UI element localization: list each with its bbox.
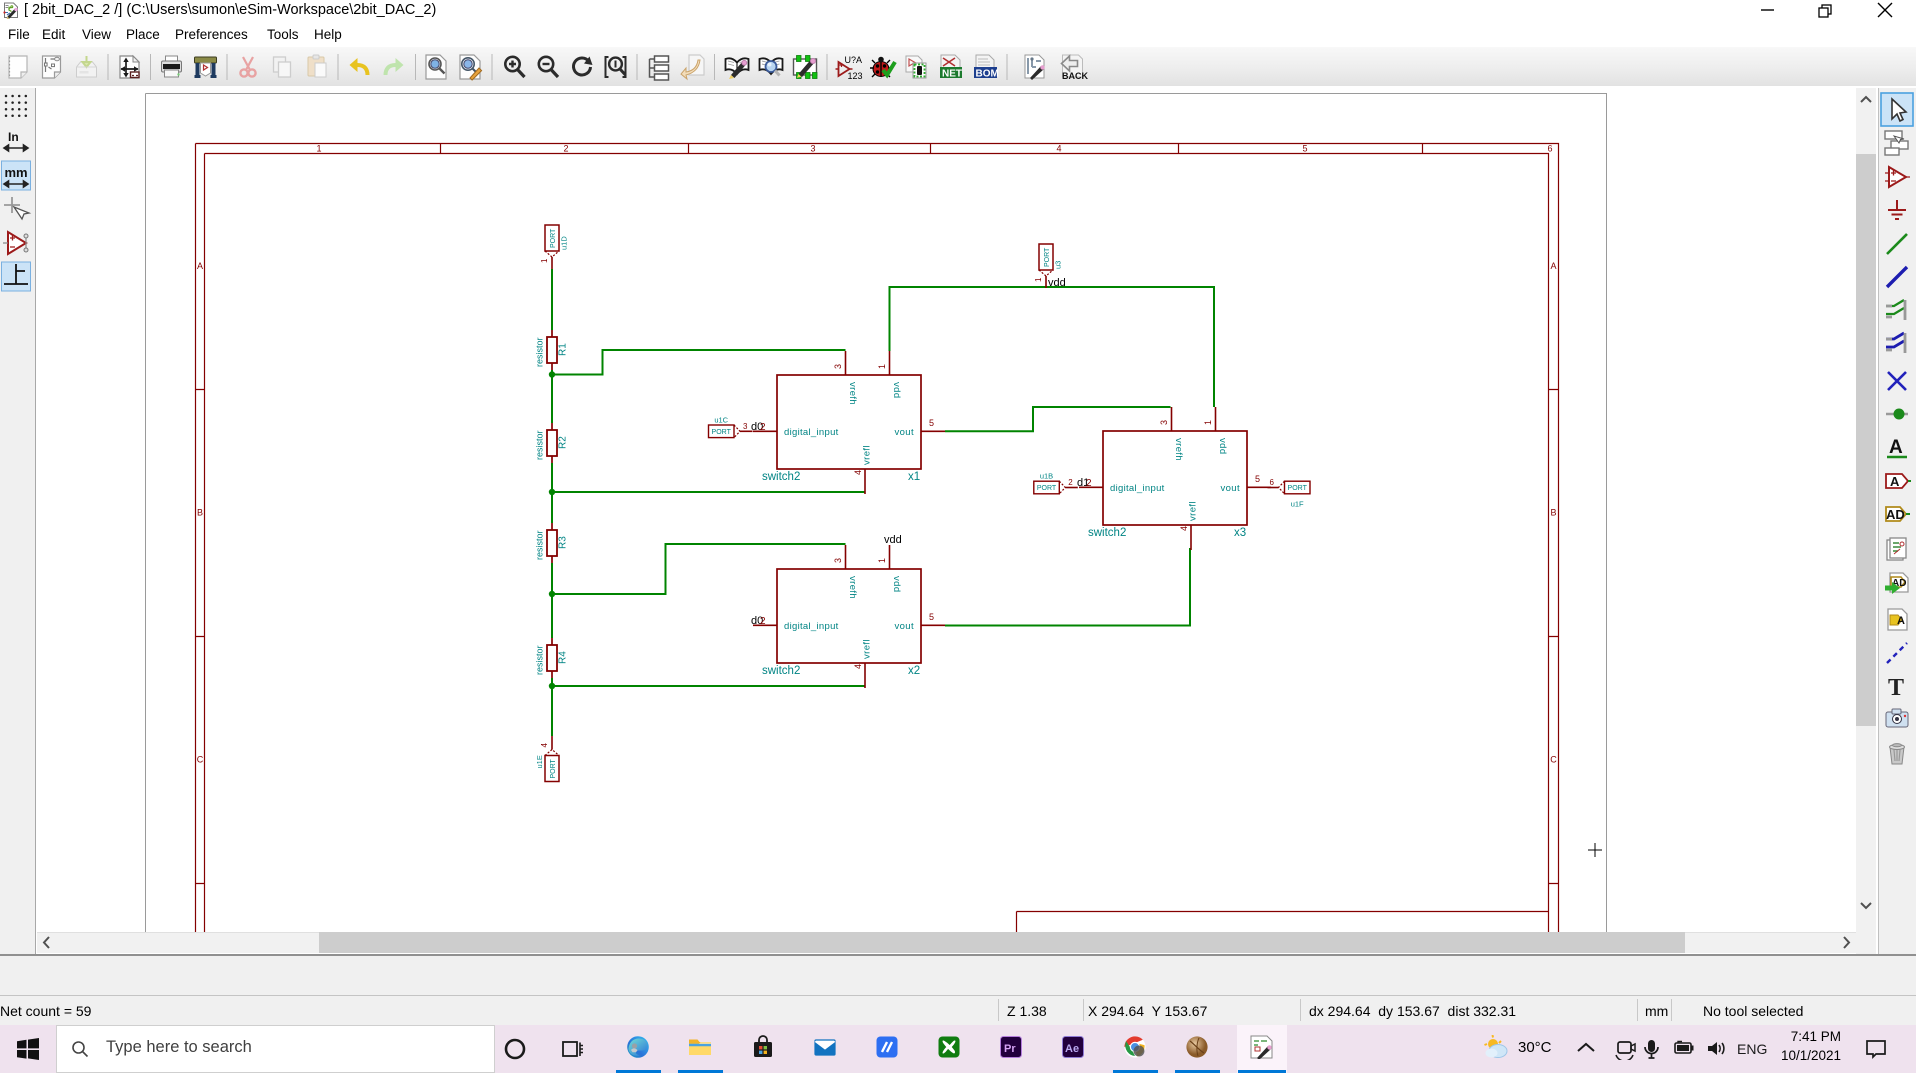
svg-text:C: C xyxy=(1550,755,1557,765)
svg-text:A: A xyxy=(1890,474,1900,489)
svg-text:PORT: PORT xyxy=(1288,485,1308,492)
svg-text:BOM: BOM xyxy=(976,69,999,80)
svg-text:u1E: u1E xyxy=(535,755,544,768)
svg-text:PORT: PORT xyxy=(550,758,557,778)
svg-text:R3: R3 xyxy=(558,536,569,549)
svg-text:BACK: BACK xyxy=(1062,71,1088,81)
svg-text:3: 3 xyxy=(833,558,843,563)
svg-text:vrefl: vrefl xyxy=(1188,501,1199,521)
svg-text:5: 5 xyxy=(1255,474,1260,484)
svg-text:switch2: switch2 xyxy=(1088,527,1126,539)
svg-text:resistor: resistor xyxy=(535,530,545,560)
svg-text:2: 2 xyxy=(1068,478,1073,487)
svg-text:4: 4 xyxy=(1179,526,1189,531)
svg-text:NET: NET xyxy=(942,69,962,80)
svg-text:vdd: vdd xyxy=(1048,277,1066,289)
svg-text:123: 123 xyxy=(848,71,863,81)
svg-text:digital_input: digital_input xyxy=(784,621,839,632)
svg-text:Pr: Pr xyxy=(1004,1043,1016,1055)
svg-text:R1: R1 xyxy=(558,343,569,356)
svg-text:switch2: switch2 xyxy=(762,665,800,677)
svg-text:A: A xyxy=(1889,437,1903,458)
svg-text:1: 1 xyxy=(877,558,887,563)
svg-text:1: 1 xyxy=(540,258,549,263)
svg-text:In: In xyxy=(8,130,19,144)
svg-text:2: 2 xyxy=(1086,478,1092,489)
svg-text:4: 4 xyxy=(540,743,549,748)
svg-text:3: 3 xyxy=(743,422,748,431)
svg-text:vdd: vdd xyxy=(884,534,902,546)
svg-text:U?A: U?A xyxy=(845,55,863,65)
svg-text:4: 4 xyxy=(853,470,863,475)
svg-text:u3: u3 xyxy=(1054,261,1063,269)
svg-text:u1F: u1F xyxy=(1291,500,1304,509)
svg-text:5: 5 xyxy=(1302,144,1307,154)
svg-text:vdd: vdd xyxy=(891,576,902,593)
svg-text:C: C xyxy=(197,755,204,765)
svg-text:4: 4 xyxy=(853,664,863,669)
svg-text:resistor: resistor xyxy=(535,337,545,367)
svg-text:3: 3 xyxy=(810,144,815,154)
svg-text:2: 2 xyxy=(563,144,568,154)
svg-text:B: B xyxy=(197,508,203,518)
svg-text:1: 1 xyxy=(316,144,321,154)
svg-text:4: 4 xyxy=(1056,144,1061,154)
svg-text:u1D: u1D xyxy=(560,236,569,250)
svg-text:resistor: resistor xyxy=(535,645,545,675)
svg-text:digital_input: digital_input xyxy=(784,427,839,438)
svg-text:1: 1 xyxy=(1034,277,1043,282)
svg-text:5: 5 xyxy=(929,418,934,428)
svg-text:u1C: u1C xyxy=(714,415,728,424)
svg-text:Ae: Ae xyxy=(1065,1043,1079,1055)
svg-text:u1B: u1B xyxy=(1040,472,1053,481)
svg-text:vrefh: vrefh xyxy=(847,576,858,599)
svg-text:x2: x2 xyxy=(908,665,920,677)
svg-text:vout: vout xyxy=(1220,483,1240,494)
svg-text:resistor: resistor xyxy=(535,430,545,460)
svg-text:vrefl: vrefl xyxy=(862,639,873,659)
svg-text:A: A xyxy=(1897,615,1905,627)
svg-text:switch2: switch2 xyxy=(762,471,800,483)
svg-text:6: 6 xyxy=(1547,144,1552,154)
svg-text:vrefl: vrefl xyxy=(862,445,873,465)
svg-text:ENG: ENG xyxy=(1737,1041,1767,1057)
svg-text:T: T xyxy=(1888,675,1904,701)
svg-text:PORT: PORT xyxy=(550,228,557,248)
svg-text:A: A xyxy=(1550,261,1556,271)
svg-text:x1: x1 xyxy=(908,471,920,483)
svg-text:A: A xyxy=(197,261,203,271)
svg-text:3: 3 xyxy=(1159,420,1169,425)
svg-text:5: 5 xyxy=(929,612,934,622)
svg-text:vdd: vdd xyxy=(1217,438,1228,455)
svg-text:mm: mm xyxy=(5,165,28,180)
svg-text:3: 3 xyxy=(833,364,843,369)
svg-text:digital_input: digital_input xyxy=(1110,483,1165,494)
svg-text:PORT: PORT xyxy=(1037,485,1057,492)
svg-text:1: 1 xyxy=(877,364,887,369)
svg-text:6: 6 xyxy=(1270,478,1275,487)
svg-text:1: 1 xyxy=(1203,420,1213,425)
svg-text:PORT: PORT xyxy=(1044,247,1051,267)
svg-text:PORT: PORT xyxy=(712,429,732,436)
svg-text:vdd: vdd xyxy=(891,382,902,399)
svg-text:vrefh: vrefh xyxy=(1173,438,1184,461)
svg-text:2: 2 xyxy=(760,422,766,433)
svg-text:vout: vout xyxy=(894,621,914,632)
svg-text:B: B xyxy=(1550,508,1556,518)
svg-text:R2: R2 xyxy=(558,436,569,449)
svg-text:R4: R4 xyxy=(558,651,569,664)
svg-text:AD: AD xyxy=(1886,507,1905,522)
svg-text:vrefh: vrefh xyxy=(847,382,858,405)
svg-text:2: 2 xyxy=(760,616,766,627)
svg-text:vout: vout xyxy=(894,427,914,438)
svg-text:x3: x3 xyxy=(1234,527,1246,539)
